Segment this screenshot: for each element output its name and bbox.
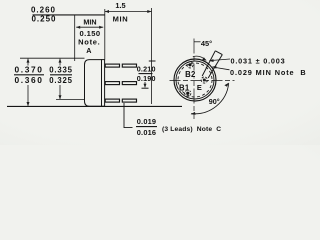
bottom view inner circle [176,61,214,99]
svg-text:0.190: 0.190 [137,74,156,83]
arrow down [144,82,146,87]
svg-text:0.031 ± 0.003: 0.031 ± 0.003 [231,57,286,66]
svg-text:0.016: 0.016 [137,128,157,137]
svg-text:E: E [197,83,202,92]
label B2 halo [184,71,197,78]
svg-text:45°: 45° [201,39,212,48]
svg-text:1.5: 1.5 [115,1,125,10]
0.335 arrow up [59,59,61,66]
svg-text:0.370: 0.370 [15,64,44,74]
label B2 [185,70,196,79]
label B1 [179,83,190,92]
dim 0.210/0.190 lead spacing [137,65,156,83]
0.370 arrow up [27,59,29,66]
lead 3 (bottom) [105,99,119,102]
tick bottom [142,87,149,89]
extension line flange (0.335) [56,98,84,100]
index tab cap [215,51,222,55]
svg-text:0.250: 0.250 [31,15,56,24]
can flange disc [102,60,105,107]
svg-text:0.325: 0.325 [49,76,73,85]
extension line left of cap [74,15,76,61]
svg-text:0.260: 0.260 [31,5,56,14]
dim 0.150 MIN Note A [78,17,100,54]
dim 0.260/0.250 cap diameter label [31,5,57,23]
dim 0.335/0.325 [49,65,73,85]
leader 0.031 [210,59,231,61]
label B1 halo [179,84,191,91]
label E [197,83,202,92]
transistor can body (side view) [85,60,102,107]
extension line lead end [151,8,153,104]
leader 0.019/0.016 [124,103,133,128]
svg-text:0.210: 0.210 [137,65,156,74]
bottom view outer circle [174,59,216,101]
baseline seating plane [7,105,182,107]
lead circle (dashed) [178,63,212,97]
svg-text:0.029 MIN Note B: 0.029 MIN Note B [230,68,307,77]
svg-text:A: A [86,46,91,55]
horizontal centerline [170,80,235,82]
svg-text:B1: B1 [179,83,190,92]
lead E (bottom view) [201,77,207,83]
90 deg arc [191,83,229,114]
dim line 1.5 [105,11,152,13]
svg-text:0.019: 0.019 [137,117,157,126]
note (3 Leads) Note C [162,126,221,133]
dim 0.370/0.360 [15,64,44,85]
dim 1.5 MIN lead length [113,1,129,23]
svg-text:(3 Leads) Note C: (3 Leads) Note C [162,126,221,133]
svg-text:MIN: MIN [83,17,96,26]
lead B2 (bottom view) [187,62,193,68]
extension line can top (left) [20,57,85,59]
svg-text:90°: 90° [209,97,220,106]
fraction bar 0.260/0.250 [33,14,105,16]
svg-text:MIN: MIN [113,14,129,23]
0.335 arrow down [59,85,61,99]
lead B1 (bottom view) [185,90,191,96]
index tab line 2 [208,55,222,78]
tick top [149,60,156,62]
svg-text:0.335: 0.335 [49,65,73,74]
vertical centerline [193,39,195,120]
svg-text:0.360: 0.360 [15,75,44,85]
leader 0.029 [213,67,230,70]
index tab line 1 [202,51,215,76]
lead 1 (top) [105,64,119,67]
0.370 arrow down [27,85,29,106]
label E halo [197,84,203,91]
lead 2 (middle) [105,82,119,85]
dim line 0.150 arrows [76,26,103,28]
45 deg leader [194,41,201,43]
extension line can right edge [104,9,106,59]
svg-text:B2: B2 [185,70,196,79]
45 deg arc [193,56,206,60]
